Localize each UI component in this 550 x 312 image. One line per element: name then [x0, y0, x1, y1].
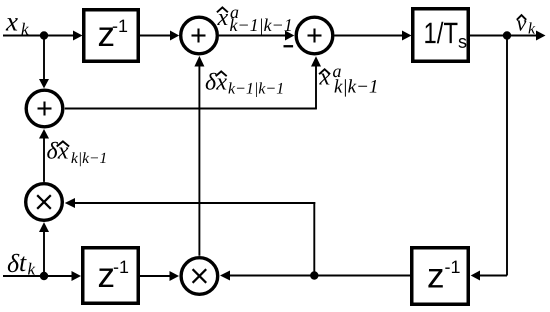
label hat-x^a_{k-1|k-1}: [217, 7, 291, 35]
multiplier M2 (x): [181, 258, 218, 295]
multiplier M1 (x): [26, 184, 63, 221]
label delta-t_k: [8, 254, 36, 275]
summing junction S2 (+): [296, 17, 333, 54]
label delta-hat-x_{k-1|k-1}: [206, 71, 283, 97]
label hat-x^a_{k|k-1}: [319, 69, 376, 97]
delay block Z3 (z^-1 bottom right): [412, 248, 469, 305]
wire: delta-t branch up into M1: [39, 222, 49, 276]
wire: from M2 up to S1 (delta-x_{k-1|k-1}): [194, 56, 204, 256]
node: delta-t junction: [40, 272, 48, 280]
label x_k: [6, 18, 29, 34]
wire: Z2 output to multiplier M2: [140, 271, 179, 281]
wire: S1 output to summing junction S2: [219, 31, 294, 41]
wire: M1 output up to summing junction S3: [39, 129, 49, 182]
label hat-v_k: [517, 15, 536, 33]
wire: S3 output right and up into S2: [65, 56, 321, 109]
label delta-hat-x_{k|k-1}: [47, 141, 105, 166]
label minus sign at S2 input: [284, 45, 294, 47]
wire: delta-t input to Z2: [3, 271, 81, 281]
delay block Z2 (z^-1 bottom left): [83, 248, 139, 304]
wire: Z1 output to summing junction S1: [140, 31, 179, 41]
wire: G1 output to v_k: [470, 31, 546, 41]
node: output junction: [503, 31, 511, 39]
wire: branch up from Z3 output to multiplier M1: [65, 198, 315, 276]
node: x_k branch junction: [40, 31, 48, 39]
gain block G1 (1/Ts): [413, 9, 469, 62]
wire: Z3 output left to multiplier M2: [220, 271, 410, 281]
wire: S2 output to block 1/Ts: [335, 31, 412, 41]
delay block Z1 (z^-1): [84, 10, 139, 62]
node: junction on Z3 output: [310, 271, 318, 279]
wire: x_k branch down into S3: [39, 36, 49, 89]
summing junction S1 (+): [181, 17, 218, 54]
wire: feedback from output node down to Z3: [471, 36, 507, 281]
wire: x_k input to Z1: [3, 31, 83, 41]
summing junction S3 (+): [26, 90, 63, 127]
